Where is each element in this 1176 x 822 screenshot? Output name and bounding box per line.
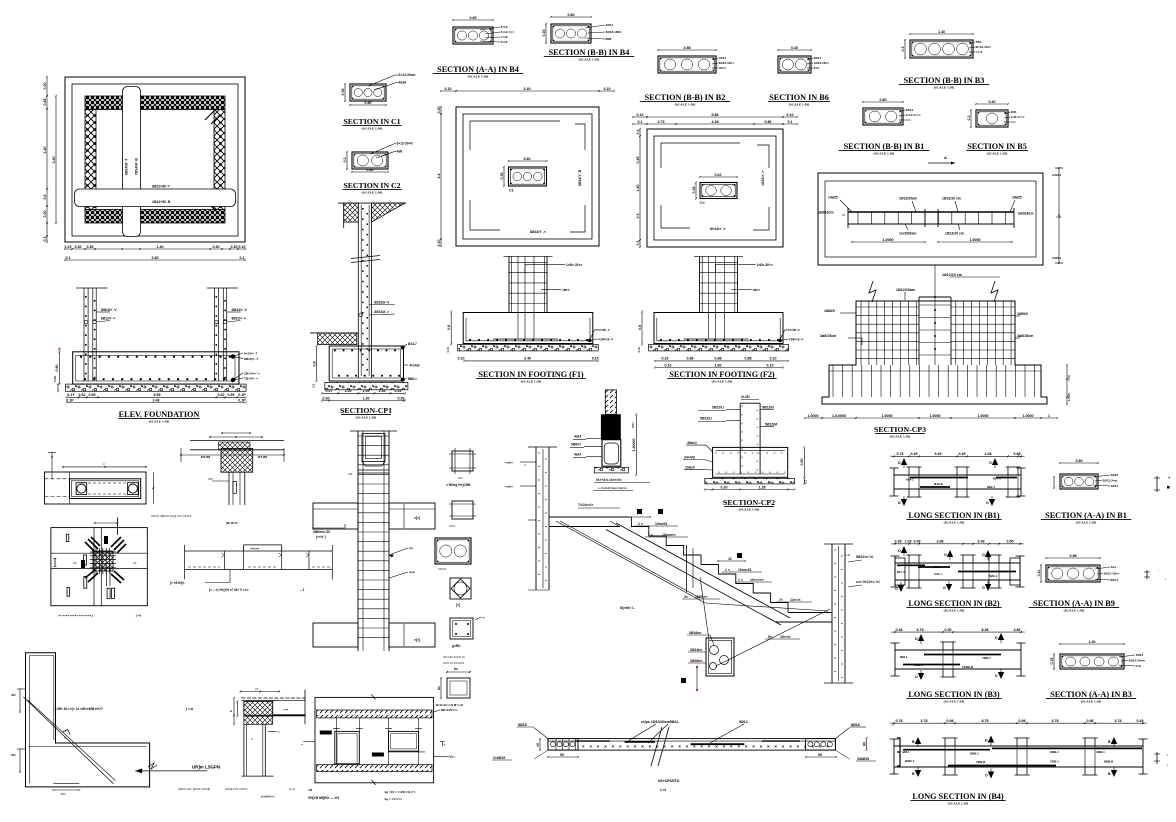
svg-text:0.38: 0.38	[895, 540, 902, 544]
svg-text:×[×]: ×[×]	[414, 516, 420, 520]
column section diamond	[450, 578, 471, 607]
svg-text:O: O	[982, 553, 985, 557]
svg-text:×: ×	[278, 730, 280, 734]
svg-text:40×: 40×	[11, 693, 16, 697]
svg-text:×: ×	[752, 744, 755, 749]
svg-text:5×: 5×	[768, 635, 772, 639]
svg-text:0.80: 0.80	[880, 98, 887, 102]
svg-text:ØT-Ø8: ØT-Ø8	[258, 455, 267, 459]
svg-text:×××: ×××	[458, 476, 463, 480]
svg-text:×: ×	[634, 744, 637, 749]
svg-text:(SCALE 1:50): (SCALE 1:50)	[362, 191, 383, 195]
svg-text:3ø8/15cm: 3ø8/15cm	[820, 334, 836, 338]
svg-text:(SCALE 1:50): (SCALE 1:50)	[944, 609, 965, 613]
svg-text:LONG SECTION IN (B3): LONG SECTION IN (B3)	[908, 690, 999, 699]
svg-text:×: ×	[686, 744, 689, 749]
title LONG SECTION IN (B2)	[906, 599, 1001, 613]
svg-text:( ×:A: ( ×:A	[186, 707, 194, 711]
svg-text:8×13/×´-7: 8×13/×´-7	[244, 352, 258, 356]
svg-text:0.98: 0.98	[1070, 554, 1077, 558]
svg-text:8Ø14/Y´-×: 8Ø14/Y´-×	[530, 230, 546, 234]
svg-text:1.0000: 1.0000	[1023, 414, 1034, 418]
beam elevation detail	[170, 545, 332, 592]
svg-text:2×6Ø15: 2×6Ø15	[493, 756, 505, 760]
svg-text:SECTION (B-B) IN B3: SECTION (B-B) IN B3	[904, 76, 985, 85]
svg-text:×: ×	[760, 744, 763, 749]
svg-text:×: ×	[64, 736, 66, 740]
svg-text:0.10: 0.10	[767, 363, 774, 367]
svg-text:×××0: ×××0	[1067, 374, 1071, 381]
svg-text:VH[×H MI]HO — ×H: VH[×H MI]HO — ×H	[308, 796, 339, 800]
svg-text:××: ××	[133, 561, 137, 565]
svg-text:LONG SECTION IN (B4): LONG SECTION IN (B4)	[912, 792, 1003, 801]
svg-text:B: B	[912, 772, 915, 776]
svg-text:O: O	[944, 553, 947, 557]
svg-text:M/B-1: M/B-1	[989, 574, 997, 578]
svg-text:4ØB-1: 4ØB-1	[1096, 750, 1105, 754]
title SECTION-CP1	[340, 406, 392, 420]
L-corner wall detail	[11, 653, 220, 796]
svg-text:×]××× ×××´ (×××× ××××]×: ×]××× ×××´ (×××× ××××]×	[178, 787, 211, 791]
svg-text:2.80: 2.80	[152, 256, 159, 260]
svg-text:4Ø14: 4Ø14	[606, 23, 614, 27]
svg-text:5×B-×: 5×B-×	[934, 572, 943, 576]
title LONG SECTION IN (B3)	[906, 690, 1001, 704]
svg-text:´×× ×××× ××××× ×××-××××.]: ´×× ×××× ××××× ×××-××××.]	[58, 614, 93, 618]
svg-text:×××: ×××	[1011, 120, 1017, 124]
svg-text:×Ø××: ×Ø××	[719, 66, 727, 70]
svg-text:N[×t0×´L: N[×t0×´L	[620, 606, 635, 610]
title SECTION (B-B) IN B1	[839, 142, 929, 156]
title ELEV. FOUNDATION	[119, 410, 200, 424]
title SECTION IN B5	[966, 142, 1028, 156]
svg-text:×: ×	[626, 744, 629, 749]
svg-text:8Ø12/ø´-×: 8Ø12/ø´-×	[374, 310, 389, 314]
svg-text:A: A	[944, 155, 947, 160]
svg-text:1Ø12/20 cm: 1Ø12/20 cm	[942, 273, 962, 277]
svg-text:D: D	[915, 637, 918, 641]
svg-text:15××\×: 15××\×	[780, 635, 791, 639]
svg-text:×××: ×××	[906, 118, 912, 122]
svg-text:2Ø14nn: 2Ø14nn	[690, 648, 702, 652]
svg-text:O: O	[982, 586, 985, 590]
svg-text:0.62: 0.62	[715, 173, 722, 177]
svg-text:1.0000: 1.0000	[978, 414, 989, 418]
svg-text:0.80: 0.80	[367, 168, 374, 172]
svg-text:0.07: 0.07	[326, 389, 333, 393]
svg-text:SECTION-CP3: SECTION-CP3	[874, 425, 926, 434]
svg-text:(SCALE 1:50): (SCALE 1:50)	[789, 103, 810, 107]
svg-text:0.10: 0.10	[787, 113, 794, 117]
title SECTION IN B6	[768, 93, 830, 107]
svg-text:4ø14: 4ø14	[574, 435, 581, 439]
svg-text:0.30: 0.30	[87, 245, 94, 249]
beam section A-A in B1	[1053, 459, 1171, 492]
svg-text:B: B	[1108, 740, 1111, 744]
svg-text:cUps 1Ø10/40cm5Ø12: cUps 1Ø10/40cm5Ø12	[641, 720, 679, 724]
svg-text:0.1Y: 0.1Y	[67, 393, 75, 397]
svg-text:(SCALE 1:50): (SCALE 1:50)	[468, 75, 489, 79]
svg-text:0.49: 0.49	[914, 540, 921, 544]
svg-text:××××× ×]×××× ×××] ´××× ×××××.: ××××× ×]×××× ×××] ´××× ×××××.	[151, 514, 192, 518]
svg-text:(SCALE 1:50): (SCALE 1:50)	[890, 435, 911, 439]
svg-text:D: D	[995, 674, 998, 678]
svg-text:×ø××: ×ø××	[753, 288, 761, 292]
svg-text:0.30: 0.30	[323, 396, 330, 400]
svg-text:3×: 3×	[684, 595, 688, 599]
svg-text:5Ø12/N: 5Ø12/N	[762, 406, 774, 410]
svg-text:××: ××	[891, 723, 895, 727]
svg-text:▪: ▪	[1167, 753, 1168, 757]
svg-text:1 ×: 1 ×	[638, 522, 643, 526]
beam section B-B in B2	[657, 46, 734, 73]
svg-text:1.40: 1.40	[157, 245, 164, 249]
svg-text:1×Ø-1×××: 1×Ø-1×××	[1011, 115, 1025, 119]
svg-text:O: O	[895, 587, 898, 591]
svg-text:7#14××\×: 7#14××\×	[578, 503, 593, 507]
svg-text:SECTION-CP1: SECTION-CP1	[340, 406, 392, 415]
svg-text:MT-Ø8: MT-Ø8	[201, 455, 210, 459]
footing plan F2	[632, 113, 798, 248]
svg-text:10nn\01: 10nn\01	[655, 522, 668, 526]
svg-text:40×: 40×	[11, 753, 16, 757]
svg-text:M/B-1: M/B-1	[987, 485, 995, 489]
svg-text:18ø25: 18ø25	[1012, 196, 1022, 200]
svg-text:2.40: 2.40	[524, 87, 531, 91]
title SECTION IN FOOTING (F1)	[476, 370, 585, 384]
svg-text:1.28: 1.28	[759, 485, 766, 489]
svg-text:O: O	[915, 675, 918, 679]
svg-text:7Ø4: 7Ø4	[976, 40, 982, 44]
title SECTION-CP2	[723, 498, 775, 512]
svg-text:0.88: 0.88	[687, 357, 694, 361]
svg-text:×nn\×: ×nn\×	[505, 461, 513, 465]
title LONG SECTION IN (B4)	[910, 792, 1005, 806]
svg-text:0.98: 0.98	[947, 719, 954, 723]
svg-text:3.49: 3.49	[935, 452, 942, 456]
svg-text:0.98: 0.98	[1087, 719, 1094, 723]
svg-text:×: ×	[641, 744, 644, 749]
svg-text:4ø4: 4ø4	[1111, 565, 1117, 569]
svg-text:▪: ▪	[1165, 577, 1166, 581]
svg-text:0.48: 0.48	[896, 628, 903, 632]
svg-text:8.78: 8.78	[982, 719, 989, 723]
svg-text:10mm××: 10mm××	[662, 533, 676, 537]
svg-text:N×H×2×××H M´××H: N×H×2×××H M´××H	[436, 703, 463, 707]
svg-text:50: 50	[560, 753, 564, 757]
svg-text:]× ×0×H[×: ]× ×0×H[×	[170, 581, 185, 585]
wall footing section CP2	[683, 395, 808, 490]
svg-text:3ø8/16cm: 3ø8/16cm	[818, 211, 833, 215]
svg-text:2Ø16nn: 2Ø16nn	[690, 659, 702, 663]
svg-text:0.45: 0.45	[636, 157, 640, 164]
svg-text:0.88: 0.88	[1014, 452, 1021, 456]
svg-text:××× ××× ××××× ××: ××× ××× ××××× ××	[443, 655, 465, 659]
svg-text:4××: 4××	[61, 792, 66, 796]
elevation foundation drawing	[53, 288, 260, 403]
svg-text:Ø14-7: Ø14-7	[408, 342, 417, 346]
svg-text:×—×: ×—×	[289, 787, 295, 791]
svg-text:×/×: ×/×	[348, 472, 353, 476]
long section B2	[891, 540, 1025, 592]
svg-text:2Ø14×/×´-×: 2Ø14×/×´-×	[244, 371, 260, 375]
svg-text:4×8: 4×8	[814, 66, 820, 70]
svg-text:×: ×	[745, 744, 748, 749]
svg-text:8Ø18: 8Ø18	[518, 723, 527, 727]
svg-text:×: ×	[797, 744, 800, 749]
svg-text:1Ø12/20am: 1Ø12/20am	[896, 288, 915, 292]
svg-text:D: D	[985, 739, 988, 743]
svg-text:SECTION IN B5: SECTION IN B5	[967, 142, 1027, 151]
svg-text:6/M-1: 6/M-1	[906, 478, 914, 482]
svg-text:0.80: 0.80	[524, 157, 531, 161]
svg-text:1 ×: 1 ×	[725, 568, 730, 572]
svg-text:×: ×	[589, 744, 592, 749]
svg-text:0.80: 0.80	[55, 365, 59, 372]
svg-text:0.10: 0.10	[592, 357, 599, 361]
svg-text:0.49: 0.49	[959, 452, 966, 456]
svg-text:BØB-1: BØB-1	[905, 759, 915, 763]
svg-text:O: O	[989, 461, 992, 465]
svg-text:1×Ø×-30××: 1×Ø×-30××	[566, 263, 582, 267]
svg-text:0.2×: 0.2×	[637, 346, 641, 352]
title SECTION (B-B) IN B2	[640, 93, 730, 107]
svg-text:8Ø12(×´-7: 8Ø12(×´-7	[244, 357, 258, 361]
svg-text:8.38: 8.38	[982, 628, 989, 632]
svg-text:7Ø14/M´-B: 7Ø14/M´-B	[135, 158, 139, 175]
svg-text:(SCALE 1:50): (SCALE 1:50)	[1081, 700, 1102, 704]
svg-text:0.1: 0.1	[788, 120, 793, 124]
svg-text:0.11: 0.11	[1037, 570, 1041, 577]
svg-text:0.3: 0.3	[901, 47, 905, 52]
svg-text:1 ×: 1 ×	[738, 578, 743, 582]
svg-text:0.80: 0.80	[1076, 459, 1083, 463]
svg-text:SECTION (A-A) IN B4: SECTION (A-A) IN B4	[437, 65, 519, 74]
svg-text:D: D	[995, 636, 998, 640]
title SECTION IN FOOTING (F2)	[667, 370, 776, 384]
svg-text:(SCALE 1:50): (SCALE 1:50)	[712, 380, 733, 384]
svg-text:(SCALE 1:50): (SCALE 1:50)	[739, 508, 760, 512]
svg-text:7Ø14/×´-×: 7Ø14/×´-×	[244, 376, 258, 380]
svg-text:24×4/U: 24×4/U	[684, 456, 696, 460]
svg-text:5××+2×L×3×××0×: 5××+2×L×3×××0×	[596, 478, 622, 482]
svg-text:SECTION IN C1: SECTION IN C1	[343, 117, 400, 126]
svg-text:0.3: 0.3	[343, 158, 347, 163]
svg-text:3×12·×××: 3×12·×××	[501, 30, 515, 34]
beam section A-A in B9	[1037, 554, 1166, 583]
svg-text:3.78: 3.78	[1115, 719, 1122, 723]
svg-text:0.86: 0.86	[765, 120, 772, 124]
svg-text:0.8: 0.8	[312, 362, 316, 367]
svg-text:7ØB-B: 7ØB-B	[976, 760, 986, 764]
svg-text:(× – ×)´H×[×H ×Γ M×´V ×××: (× – ×)´H×[×H ×Γ M×´V ×××	[209, 588, 249, 592]
svg-text:0.N001: 0.N001	[1052, 173, 1061, 177]
svg-text:2Ø14+/M´-B: 2Ø14+/M´-B	[152, 200, 171, 204]
svg-text:Ø×12-18××: Ø×12-18××	[976, 45, 992, 49]
svg-text:SECTION (A-A) IN B9: SECTION (A-A) IN B9	[1033, 599, 1115, 608]
svg-text:××: ××	[482, 616, 486, 620]
column section e	[450, 616, 485, 649]
svg-text:1600\××: 1600\××	[695, 595, 707, 599]
svg-text:0.30: 0.30	[398, 396, 405, 400]
svg-text:N0×CPANTU: N0×CPANTU	[658, 779, 680, 783]
svg-text:5Ø8/×l: 5Ø8/×l	[571, 442, 581, 446]
svg-text:1.00: 1.00	[1089, 640, 1096, 644]
svg-text:1.40: 1.40	[938, 30, 945, 34]
svg-text:0.80: 0.80	[568, 13, 575, 17]
svg-text:3Ø12-30×m: 3Ø12-30×m	[1129, 659, 1146, 663]
svg-text:8ØB-1: 8ØB-1	[914, 663, 923, 667]
svg-text:O: O	[986, 501, 989, 505]
svg-text:0.3: 0.3	[967, 116, 971, 121]
svg-text:(××l×´): (××l×´)	[316, 535, 326, 539]
svg-text:D: D	[898, 461, 901, 465]
column junction plan	[51, 517, 147, 617]
svg-text:3Ø8mm /10: 3Ø8mm /10	[313, 530, 330, 534]
svg-text:××16: ××16	[501, 35, 508, 39]
svg-text:1.40000: 1.40000	[632, 439, 636, 452]
svg-text:1.03: 1.03	[905, 540, 912, 544]
svg-text:×: ×	[251, 737, 253, 741]
svg-text:8Ø12/×´-×: 8Ø12/×´-×	[232, 317, 247, 321]
svg-text:SECTION (B-B) IN B2: SECTION (B-B) IN B2	[645, 93, 726, 102]
svg-text:×Ø14/×´-×: ×Ø14/×´-×	[761, 170, 765, 186]
svg-text:0.30: 0.30	[213, 245, 220, 249]
long section B1	[890, 452, 1026, 506]
svg-text:5Ø12: 5Ø12	[739, 720, 748, 724]
svg-text:13ØB-Ø: 13ØB-Ø	[962, 665, 974, 669]
svg-text:0.1: 0.1	[804, 480, 808, 484]
svg-text:1Ø12-18××: 1Ø12-18××	[814, 61, 830, 65]
wall elevation with openings	[301, 695, 458, 802]
plan panel beam B1 layout	[818, 167, 1063, 265]
svg-text:0.10: 0.10	[65, 245, 72, 249]
svg-text:4Ø4: 4Ø4	[1011, 110, 1017, 114]
title SECTION (B-B) IN B3	[899, 76, 989, 90]
svg-text:0.30: 0.30	[53, 376, 57, 382]
svg-text:4.78: 4.78	[1052, 719, 1059, 723]
svg-text:80: 80	[862, 742, 866, 746]
svg-text:18Ø20: 18Ø20	[1017, 312, 1028, 316]
svg-text:1×Ø×-30××: 1×Ø×-30××	[757, 263, 773, 267]
svg-text:ND+K2V×××: ND+K2V×××	[441, 708, 458, 712]
svg-text:2ø3/18cm: 2ø3/18cm	[1018, 212, 1033, 216]
svg-text:LONG SECTION IN (B2): LONG SECTION IN (B2)	[908, 599, 999, 608]
svg-text:(Ø) M×V×: (Ø) M×V×	[226, 521, 239, 525]
svg-text:×: ×	[524, 463, 526, 467]
svg-text:D: D	[898, 501, 901, 505]
svg-text:├0.28┤: ├0.28┤	[740, 395, 751, 399]
svg-text:4ø16: 4ø16	[399, 81, 407, 85]
svg-text:×××: ×××	[283, 708, 288, 712]
svg-text:××/×××: ××/×××	[250, 547, 260, 551]
svg-text:×M: ×M	[308, 788, 313, 792]
svg-text:50: 50	[818, 753, 822, 757]
svg-text:14××\×: 14××\×	[790, 598, 801, 602]
svg-text:7×: 7×	[779, 598, 783, 602]
svg-text:C1: C1	[509, 189, 514, 193]
svg-text:8ØB-B: 8ØB-B	[1104, 760, 1114, 764]
svg-text:0.10: 0.10	[665, 363, 672, 367]
svg-text:SECTION IN C2: SECTION IN C2	[343, 181, 400, 190]
svg-text:1.0000: 1.0000	[970, 238, 981, 242]
svg-text:8Ø8: 8Ø8	[606, 37, 612, 41]
svg-text:0.49: 0.49	[911, 452, 918, 456]
svg-text:M/×-1: M/×-1	[993, 477, 1001, 481]
svg-text:4.86: 4.86	[1014, 628, 1021, 632]
svg-text:×[×]: ×[×]	[414, 638, 420, 642]
svg-text:(SCALE 1:50): (SCALE 1:50)	[874, 152, 895, 156]
svg-text:4×14/ø´: 4×14/ø´	[409, 363, 420, 367]
svg-text:(SCALE 1:50): (SCALE 1:50)	[944, 521, 965, 525]
svg-text:10×××××: 10×××××	[750, 578, 764, 582]
footing plan F1	[437, 87, 615, 247]
svg-text:0.44: 0.44	[395, 389, 402, 393]
svg-text:(SCALE 1:50): (SCALE 1:50)	[948, 802, 969, 806]
svg-text:4.28: 4.28	[712, 120, 719, 124]
svg-text:hc: hc	[437, 686, 441, 690]
svg-text:4ø8: 4ø8	[397, 150, 403, 154]
svg-text:1o15/20am: 1o15/20am	[899, 232, 916, 236]
column section b	[449, 501, 476, 528]
svg-text:×××: ×××	[208, 477, 213, 481]
title SECTION (B-B) IN B4	[544, 48, 634, 62]
svg-text:8Ø14/M´-7: 8Ø14/M´-7	[125, 159, 129, 175]
svg-text:0.80: 0.80	[470, 16, 477, 20]
svg-text:0.10: 0.10	[239, 245, 246, 249]
svg-text:0.10: 0.10	[437, 240, 441, 247]
svg-text:▪: ▪	[1167, 763, 1168, 767]
svg-text:0.10: 0.10	[445, 87, 452, 91]
svg-text:3.78: 3.78	[921, 719, 928, 723]
svg-text:×: ×	[103, 462, 105, 466]
footing section F1	[446, 256, 613, 362]
svg-text:Ø13-B: Ø13-B	[934, 482, 944, 486]
svg-text:1.30: 1.30	[363, 396, 370, 400]
svg-text:5Ø12/U: 5Ø12/U	[712, 406, 724, 410]
svg-text:0.40: 0.40	[989, 100, 996, 104]
svg-text:0.1: 0.1	[638, 120, 643, 124]
svg-text:14ø25: 14ø25	[828, 196, 838, 200]
svg-text:0.2×: 0.2×	[446, 346, 450, 352]
column section hc	[436, 667, 471, 707]
svg-text:( UR× KL××[× 14 ×W××WM H××7: ( UR× KL××[× 14 ×W××WM H××7	[55, 707, 104, 711]
corner junction detail	[225, 687, 306, 799]
svg-text:0.45: 0.45	[43, 99, 47, 106]
svg-text:ELEV. FOUNDATION: ELEV. FOUNDATION	[119, 410, 200, 419]
svg-text:1.0000: 1.0000	[882, 414, 893, 418]
svg-text:0.30: 0.30	[43, 83, 47, 90]
svg-text:0.30: 0.30	[43, 211, 47, 218]
wall beam junction detail	[151, 432, 285, 525]
svg-text:8Ø×4: 8Ø×4	[1111, 578, 1119, 582]
svg-text:0.40: 0.40	[791, 46, 798, 50]
svg-text:kg =40 × ××29××H V´×: kg =40 × ××29××H V´×	[385, 790, 416, 794]
svg-text:(SCALE 1:50): (SCALE 1:50)	[362, 127, 383, 131]
svg-text:SECTION (A-A) IN B1: SECTION (A-A) IN B1	[1045, 511, 1127, 520]
svg-text:1Ø12/20am: 1Ø12/20am	[899, 197, 917, 201]
svg-text:0.78: 0.78	[896, 719, 903, 723]
svg-text:l─××a×d××ba×××a××o: l─××a×d××ba×××a××o	[598, 486, 627, 490]
svg-text:×: ×	[774, 744, 777, 749]
svg-text:×ø××: ×ø××	[562, 288, 570, 292]
svg-text:n××.5×12××´\×l: n××.5×12××´\×l	[856, 580, 880, 584]
svg-text:×××××: ×××××	[438, 567, 447, 571]
svg-text:0.30: 0.30	[437, 107, 441, 114]
svg-text:3Ø12-18××: 3Ø12-18××	[719, 61, 735, 65]
svg-text:0.10: 0.10	[604, 87, 611, 91]
svg-text:3×12-30cm: 3×12-30cm	[399, 73, 416, 77]
